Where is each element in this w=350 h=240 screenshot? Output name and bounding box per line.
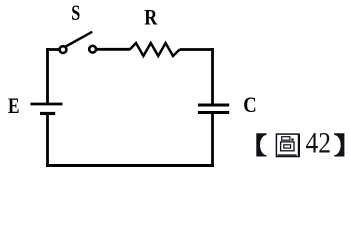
caption glyph 圖 top small box xyxy=(282,137,290,141)
caption glyph 圖 outer box xyxy=(276,134,299,157)
svg-text:S: S xyxy=(71,0,80,25)
capacitor C bottom plate xyxy=(198,111,229,114)
switch S left terminal circle xyxy=(60,46,67,53)
caption glyph 圖 inner box xyxy=(284,145,291,148)
caption glyph 圖 bottom stroke xyxy=(278,154,297,156)
caption glyph 圖 middle box xyxy=(281,142,294,151)
wire right lower (bottom wire up to capacitor bottom plate) xyxy=(211,113,214,167)
resistor R zigzag xyxy=(130,43,180,56)
wire right upper (capacitor top plate up to top corner) xyxy=(211,48,214,105)
caption right lenticular bracket 】 xyxy=(334,133,344,156)
caption glyph 圖 tick dot xyxy=(291,139,293,141)
wire top-left stub from corner to switch left terminal xyxy=(46,48,59,51)
wire bottom xyxy=(46,164,214,167)
caption left lenticular bracket 【 xyxy=(256,133,266,156)
wire left upper (corner down to battery top plate) xyxy=(46,48,49,103)
caption glyph right heavy stroke xyxy=(298,134,300,157)
wire top right (resistor to right corner) xyxy=(180,48,214,51)
svg-text:42: 42 xyxy=(306,128,332,160)
battery E top plate (long) xyxy=(31,103,63,106)
switch S right terminal circle xyxy=(89,46,96,53)
svg-text:C: C xyxy=(243,92,256,117)
capacitor C top plate xyxy=(198,104,229,107)
switch S lever arm (open) xyxy=(66,32,92,46)
svg-text:R: R xyxy=(144,4,158,29)
svg-text:E: E xyxy=(8,93,20,118)
battery E bottom plate (short) xyxy=(40,112,55,115)
wire switch right terminal to resistor xyxy=(97,48,131,51)
wire left lower (battery bottom plate down to bottom wire) xyxy=(46,114,49,167)
